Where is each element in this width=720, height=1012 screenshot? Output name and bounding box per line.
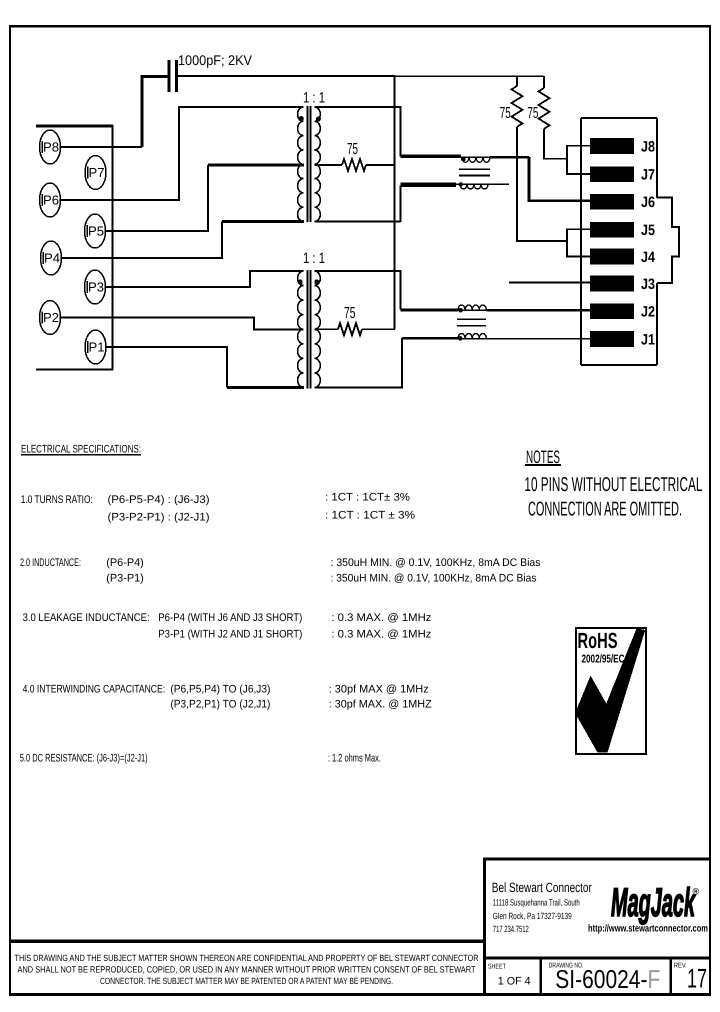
svg-text:J5: J5	[641, 222, 655, 239]
svg-text:: 1CT : 1CT± 3%: : 1CT : 1CT± 3%	[325, 492, 410, 504]
svg-text:: 0.3 MAX. @ 1MHz: : 0.3 MAX. @ 1MHz	[331, 629, 431, 641]
svg-text:2002/95/EC: 2002/95/EC	[582, 654, 625, 666]
svg-text:CONNECTION ARE OMITTED.: CONNECTION ARE OMITTED.	[528, 499, 682, 521]
svg-text:: 350uH MIN. @ 0.1V, 100KHz, 8: : 350uH MIN. @ 0.1V, 100KHz, 8mA DC Bias	[331, 557, 541, 569]
svg-text:: 350uH MIN. @ 0.1V, 100KHz, 8: : 350uH MIN. @ 0.1V, 100KHz, 8mA DC Bias	[331, 573, 537, 585]
svg-text:J2: J2	[641, 304, 655, 321]
svg-text:P3-P1 (WITH J2 AND J1 SHORT): P3-P1 (WITH J2 AND J1 SHORT)	[158, 629, 302, 641]
svg-text:P6-P4 (WITH J6 AND J3 SHORT): P6-P4 (WITH J6 AND J3 SHORT)	[158, 612, 302, 624]
svg-text:Bel Stewart Connector: Bel Stewart Connector	[492, 880, 592, 895]
svg-text:J3: J3	[641, 276, 655, 293]
svg-text:4.0 INTERWINDING CAPACITANCE:: 4.0 INTERWINDING CAPACITANCE:	[23, 684, 166, 696]
svg-text:P8: P8	[43, 140, 59, 155]
svg-text:1000pF; 2KV: 1000pF; 2KV	[178, 52, 253, 68]
svg-text:J6: J6	[641, 194, 655, 211]
svg-text:THIS DRAWING AND THE SUBJECT M: THIS DRAWING AND THE SUBJECT MATTER SHOW…	[15, 953, 479, 963]
svg-text:10 PINS WITHOUT ELECTRICAL: 10 PINS WITHOUT ELECTRICAL	[524, 474, 702, 496]
svg-text:SHEET: SHEET	[488, 964, 507, 971]
svg-text:: 1.2 ohms Max.: : 1.2 ohms Max.	[328, 753, 381, 765]
svg-text:717 234.7512: 717 234.7512	[493, 924, 529, 934]
svg-text:P3: P3	[88, 280, 104, 295]
svg-text:CONNECTOR. THE SUBJECT MATTER: CONNECTOR. THE SUBJECT MATTER MAY BE PAT…	[100, 976, 393, 986]
svg-text:1 OF 4: 1 OF 4	[498, 976, 531, 988]
svg-text:J8: J8	[641, 139, 655, 156]
svg-text:P5: P5	[88, 224, 104, 239]
svg-text:1.0 TURNS RATIO:: 1.0 TURNS RATIO:	[21, 494, 93, 506]
svg-text:: 30pf MAX. @ 1MHZ: : 30pf MAX. @ 1MHZ	[329, 699, 432, 711]
svg-text:P1: P1	[89, 340, 105, 355]
svg-text:75: 75	[347, 141, 358, 158]
svg-text:75: 75	[500, 105, 511, 122]
svg-text:AND SHALL NOT BE REPRODUCED, C: AND SHALL NOT BE REPRODUCED, COPIED, OR …	[18, 965, 476, 975]
svg-text:P2: P2	[43, 310, 59, 325]
svg-text:Glen Rock, Pa 17327-9139: Glen Rock, Pa 17327-9139	[493, 911, 572, 921]
svg-text:NOTES: NOTES	[526, 447, 560, 467]
svg-text:1 : 1: 1 : 1	[303, 90, 325, 107]
svg-text:(P6,P5,P4) TO (J6,J3): (P6,P5,P4) TO (J6,J3)	[170, 684, 270, 696]
svg-text:75: 75	[344, 305, 356, 322]
svg-text:(P6-P5-P4) : (J6-J3): (P6-P5-P4) : (J6-J3)	[108, 494, 210, 506]
svg-text:17: 17	[687, 964, 707, 994]
svg-text:P6: P6	[43, 193, 59, 208]
svg-text:ELECTRICAL SPECIFICATIONS:: ELECTRICAL SPECIFICATIONS:	[21, 444, 141, 456]
svg-text:(P6-P4): (P6-P4)	[106, 557, 144, 569]
svg-text:(P3-P1): (P3-P1)	[106, 573, 144, 585]
svg-text:J1: J1	[641, 331, 655, 348]
svg-text:RoHS: RoHS	[578, 628, 618, 653]
svg-text:MagJack: MagJack	[611, 881, 696, 925]
svg-text:J7: J7	[641, 167, 655, 184]
svg-text:5.0 DC RESISTANCE: (J6-J3)=(J: 5.0 DC RESISTANCE: (J6-J3)=(J2-J1)	[20, 753, 148, 765]
svg-text:3.0 LEAKAGE INDUCTANCE:: 3.0 LEAKAGE INDUCTANCE:	[23, 612, 150, 624]
svg-text:(P3-P2-P1) : (J2-J1): (P3-P2-P1) : (J2-J1)	[108, 512, 210, 524]
svg-text:: 1CT : 1CT ± 3%: : 1CT : 1CT ± 3%	[325, 509, 415, 521]
svg-text:2.0 INDUCTANCE:: 2.0 INDUCTANCE:	[20, 557, 81, 569]
svg-text:SI-60024-F: SI-60024-F	[555, 964, 660, 994]
svg-text:75: 75	[527, 105, 538, 122]
svg-text:®: ®	[693, 887, 700, 897]
svg-text:J4: J4	[641, 249, 656, 266]
svg-text:P7: P7	[89, 165, 105, 180]
svg-text:1 : 1: 1 : 1	[303, 250, 325, 267]
svg-text:P4: P4	[44, 251, 60, 266]
svg-text:: 0.3 MAX. @ 1MHz: : 0.3 MAX. @ 1MHz	[331, 612, 431, 624]
svg-text:11118 Susquehanna Trail, South: 11118 Susquehanna Trail, South	[493, 897, 580, 907]
svg-text:http://www.stewartconnector.co: http://www.stewartconnector.com	[588, 924, 708, 935]
svg-text:(P3,P2,P1) TO (J2,J1): (P3,P2,P1) TO (J2,J1)	[170, 699, 270, 711]
svg-text:REV.: REV.	[674, 963, 687, 970]
svg-text:: 30pf MAX @ 1MHz: : 30pf MAX @ 1MHz	[329, 684, 429, 696]
